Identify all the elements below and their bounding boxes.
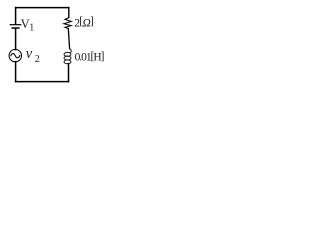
- inductor L loop 1: [64, 52, 71, 56]
- AC source v2 circle: [9, 49, 21, 61]
- wire right upper (top corner to resistor): [68, 8, 70, 18]
- wire AC source to bottom corner: [15, 62, 17, 82]
- battery V1 long plate: [10, 24, 21, 26]
- svg-text:2: 2: [35, 54, 40, 65]
- resistor R zigzag: [64, 18, 71, 29]
- inductor L loop 2: [64, 56, 71, 60]
- battery V1 short plate: [12, 27, 19, 29]
- wire resistor to inductor: [68, 29, 69, 49]
- svg-text:1: 1: [29, 22, 34, 33]
- wire left upper (top corner to battery): [15, 8, 17, 25]
- inductor L coil hook: [70, 49, 71, 53]
- svg-text:ν: ν: [26, 46, 33, 62]
- svg-text:0.01[H]: 0.01[H]: [75, 50, 104, 63]
- AC source sine wave: [11, 54, 20, 58]
- inductor L loop 3: [64, 60, 71, 64]
- wire bottom: [16, 81, 69, 83]
- svg-text:2[Ω]: 2[Ω]: [74, 16, 93, 30]
- wire inductor to bottom corner: [68, 64, 70, 82]
- wire top: [16, 7, 69, 9]
- wire battery to AC source: [15, 29, 17, 50]
